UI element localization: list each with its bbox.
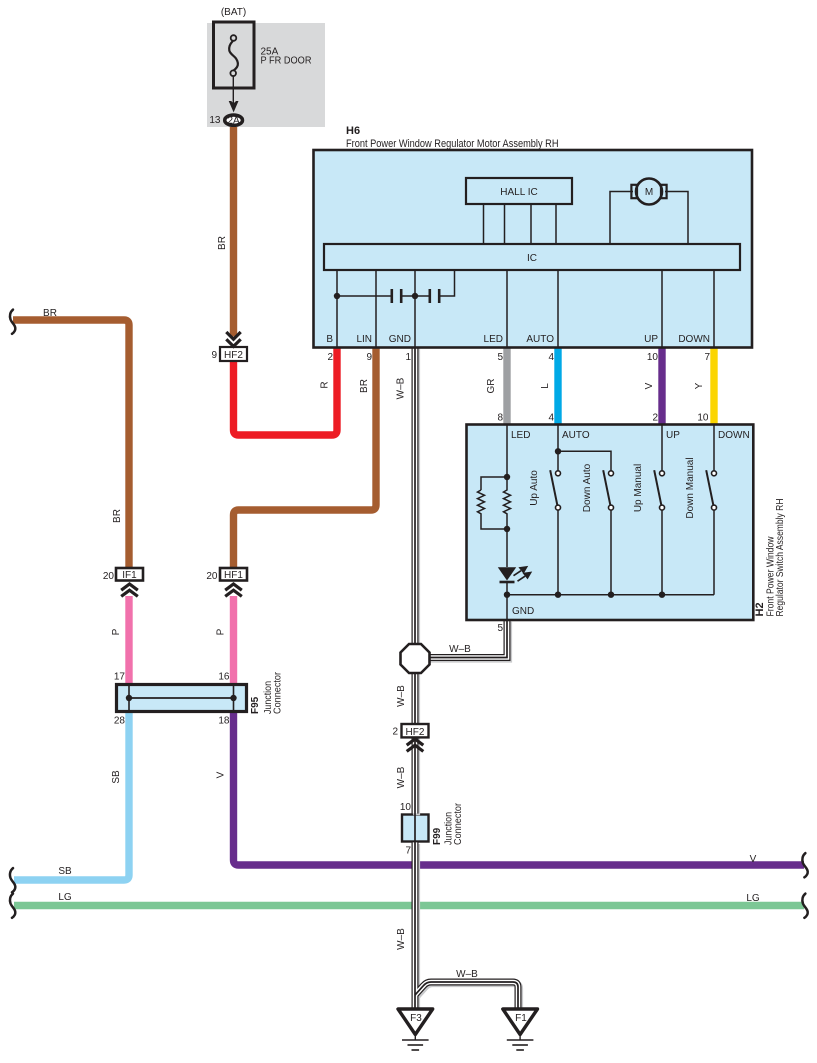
svg-text:F95: F95 — [250, 696, 261, 714]
svg-text:V: V — [750, 854, 757, 865]
wire P from HF1 to F95 pin 16 — [230, 596, 237, 686]
chevrons below HF1 — [225, 584, 242, 596]
svg-text:LIN: LIN — [356, 334, 372, 345]
svg-text:5: 5 — [497, 352, 503, 363]
node rail 1 — [504, 592, 510, 598]
wire pin B — [336, 270, 338, 347]
svg-text:17: 17 — [114, 672, 126, 683]
svg-text:F1: F1 — [515, 1013, 527, 1024]
svg-text:IF1: IF1 — [122, 570, 137, 581]
node resistor top — [504, 474, 510, 480]
svg-text:Up Manual: Up Manual — [633, 464, 644, 512]
node on GND line — [412, 293, 418, 299]
svg-text:BR: BR — [217, 236, 228, 250]
svg-text:9: 9 — [211, 350, 217, 361]
break LG right — [802, 894, 807, 918]
svg-text:BR: BR — [43, 308, 57, 319]
svg-text:Connector: Connector — [453, 802, 464, 845]
resistor R1 — [478, 490, 485, 517]
svg-text:H6: H6 — [346, 125, 360, 137]
junction connector F99 — [402, 815, 429, 842]
svg-text:Up Auto: Up Auto — [529, 470, 540, 506]
svg-text:2: 2 — [392, 727, 398, 738]
switch lower drops — [558, 510, 714, 595]
svg-text:Y: Y — [694, 382, 705, 389]
svg-text:4: 4 — [548, 352, 554, 363]
wire SB from F95 pin 28 to left edge — [14, 710, 129, 880]
ground F3 — [398, 1009, 433, 1035]
svg-text:5: 5 — [497, 623, 503, 634]
svg-text:9: 9 — [366, 352, 372, 363]
H6 box — [314, 150, 753, 348]
connector IF1 — [116, 568, 143, 581]
svg-text:M: M — [645, 187, 653, 198]
wire pin LIN — [375, 270, 377, 347]
wire W-B outline — [415, 346, 518, 1009]
wire BR from battery fuse to HF2 — [230, 127, 237, 337]
svg-text:1: 1 — [405, 352, 411, 363]
svg-text:IC: IC — [527, 253, 537, 264]
svg-text:GR: GR — [486, 379, 497, 394]
capacitor C1 plates — [390, 289, 393, 303]
svg-text:BR: BR — [359, 379, 370, 393]
node rail 2 — [555, 592, 561, 598]
break BR left — [10, 310, 15, 334]
wire W-B shadow — [417, 348, 520, 1011]
splice octagon — [401, 644, 430, 673]
chevrons below HF2 — [407, 739, 424, 751]
svg-text:HF2: HF2 — [224, 350, 243, 361]
bottom rail — [507, 594, 714, 596]
svg-text:AUTO: AUTO — [526, 334, 554, 345]
svg-text:(BAT): (BAT) — [221, 7, 246, 18]
svg-text:Front Power Window Regulator M: Front Power Window Regulator Motor Assem… — [346, 138, 559, 150]
switch SW4 Down Manual — [706, 470, 716, 510]
grounds — [398, 1009, 538, 1050]
wire R from HF2 to H6 pin 2 — [234, 346, 338, 435]
wire pin AUTO — [557, 270, 559, 347]
fuse element — [229, 41, 238, 71]
connector oval 2A — [225, 115, 243, 125]
motor M1 wires — [610, 192, 688, 245]
svg-text:HF2: HF2 — [406, 727, 425, 738]
chevrons below IF1 — [121, 584, 138, 596]
wire W-B black stripe — [415, 346, 518, 1009]
wire Y from H6 DOWN pin 7 to H2 pin 10 — [710, 346, 717, 425]
svg-text:20: 20 — [206, 571, 218, 582]
svg-text:W–B: W–B — [396, 928, 407, 950]
fuse block background — [207, 23, 325, 127]
wire V from F95 pin 18 to right edge — [234, 710, 805, 865]
connector HF2 (top) — [220, 347, 247, 361]
connector HF2 (lower, W-B) — [402, 724, 429, 737]
svg-text:Connector: Connector — [272, 671, 283, 714]
svg-text:2A: 2A — [227, 116, 240, 127]
svg-text:W–B: W–B — [456, 969, 478, 980]
wire W-B white core — [415, 346, 518, 1009]
svg-text:P: P — [111, 628, 122, 635]
svg-text:F3: F3 — [410, 1013, 422, 1024]
switch feed DOWN — [713, 424, 715, 471]
svg-text:SB: SB — [58, 866, 72, 877]
svg-text:10: 10 — [400, 802, 412, 813]
switch feed UP — [661, 424, 663, 471]
W-B wire group — [415, 346, 520, 1011]
resistor R2 — [504, 477, 511, 529]
svg-text:16: 16 — [218, 672, 230, 683]
wire L from H6 AUTO pin 4 to H2 pin 4 — [554, 346, 561, 425]
svg-text:V: V — [216, 771, 227, 778]
node AUTO split — [555, 448, 561, 454]
connector boxes — [116, 332, 429, 751]
svg-text:SB: SB — [111, 770, 122, 784]
svg-text:H2: H2 — [754, 602, 766, 616]
ground F1 — [503, 1009, 538, 1035]
svg-text:4: 4 — [548, 413, 554, 424]
node rail 4 — [659, 592, 665, 598]
wire pin UP — [661, 270, 663, 347]
svg-text:18: 18 — [218, 716, 230, 727]
resistor branch links — [481, 477, 507, 529]
svg-text:10: 10 — [647, 352, 659, 363]
wire LG across page — [14, 902, 804, 909]
HALL IC box — [466, 178, 572, 204]
svg-text:W–B: W–B — [396, 766, 407, 788]
wire P from IF1 to F95 pin 17 — [125, 596, 132, 686]
LED D1 — [498, 567, 516, 580]
svg-text:GND: GND — [512, 606, 534, 617]
wire fuse to connector — [232, 76, 234, 103]
wires HALL IC to IC — [484, 204, 557, 244]
wire break squiggles — [10, 310, 808, 918]
svg-text:L: L — [540, 383, 551, 389]
pin lines below IC — [337, 270, 714, 347]
break SB left — [10, 868, 15, 892]
svg-text:LG: LG — [746, 893, 760, 904]
svg-text:DOWN: DOWN — [718, 430, 750, 441]
svg-text:Down Manual: Down Manual — [685, 457, 696, 518]
svg-text:P: P — [216, 628, 227, 635]
svg-text:13: 13 — [209, 115, 221, 126]
svg-text:Regulator Switch Assembly RH: Regulator Switch Assembly RH — [775, 499, 786, 617]
junction connector F95 — [117, 685, 247, 712]
svg-text:8: 8 — [497, 413, 503, 424]
wire LED to diode — [506, 529, 508, 567]
svg-text:HF1: HF1 — [224, 570, 243, 581]
svg-text:GND: GND — [389, 334, 411, 345]
wire GND drop — [506, 595, 508, 620]
wire pin GND — [414, 270, 416, 347]
svg-text:10: 10 — [697, 413, 709, 424]
connector HF1 — [220, 568, 247, 581]
svg-text:7: 7 — [704, 352, 710, 363]
node resistor bottom — [504, 526, 510, 532]
svg-text:2: 2 — [652, 413, 658, 424]
motor M1 — [636, 179, 662, 205]
H2 box — [467, 424, 754, 620]
svg-text:V: V — [644, 382, 655, 389]
arrowhead — [229, 101, 239, 112]
svg-text:BR: BR — [112, 509, 123, 523]
svg-text:DOWN: DOWN — [678, 334, 710, 345]
capacitor link line — [337, 270, 455, 296]
wire LED line — [506, 424, 508, 477]
svg-text:W–B: W–B — [396, 685, 407, 707]
svg-text:28: 28 — [114, 716, 126, 727]
svg-text:LED: LED — [484, 334, 503, 345]
switch SW1 Up Auto — [550, 470, 560, 510]
svg-text:2: 2 — [327, 352, 333, 363]
svg-text:AUTO: AUTO — [562, 430, 590, 441]
wires group — [13, 127, 804, 906]
LED arrows — [514, 567, 531, 581]
IC box U-IC — [324, 244, 740, 270]
switch SW2 Down Auto — [603, 470, 613, 510]
svg-text:B: B — [326, 334, 333, 345]
node rail 3 — [608, 592, 614, 598]
wire pin DOWN — [713, 270, 715, 347]
svg-text:UP: UP — [666, 430, 680, 441]
svg-text:UP: UP — [644, 334, 658, 345]
break V right — [802, 853, 807, 877]
wire BR left with branch — [13, 320, 129, 568]
svg-text:HALL IC: HALL IC — [500, 187, 537, 198]
node on B line — [334, 293, 340, 299]
svg-text:P FR DOOR: P FR DOOR — [261, 56, 312, 67]
svg-text:20: 20 — [103, 571, 115, 582]
chevrons into HF2 — [226, 332, 240, 346]
wire pin LED — [506, 270, 508, 347]
switch SW3 Up Manual — [654, 470, 664, 510]
switch feed AUTO — [558, 424, 611, 471]
svg-text:W–B: W–B — [396, 377, 407, 399]
wire GR from H6 LED pin 5 to H2 pin 8 — [503, 346, 510, 425]
svg-text:W–B: W–B — [449, 644, 471, 655]
fuse F 25A box — [214, 22, 255, 88]
svg-text:Down Auto: Down Auto — [582, 463, 593, 512]
capacitor C2 plates — [428, 289, 431, 303]
wire V from H6 UP pin 10 to H2 pin 2 — [658, 346, 665, 425]
svg-text:LED: LED — [511, 430, 530, 441]
svg-text:LG: LG — [58, 892, 72, 903]
svg-text:7: 7 — [405, 846, 411, 857]
svg-text:F99: F99 — [432, 827, 443, 845]
svg-text:R: R — [320, 381, 331, 388]
break LG left — [10, 894, 15, 918]
wire BR from H6 LIN pin 9 to HF1 — [234, 346, 377, 568]
